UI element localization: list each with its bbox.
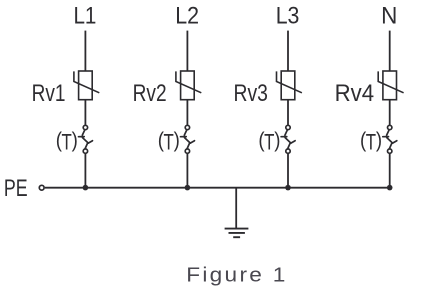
svg-text:T: T xyxy=(264,130,274,155)
wire PE bus to ground xyxy=(235,188,237,229)
PE open terminal circle xyxy=(39,185,44,190)
PE bus wire xyxy=(45,187,390,189)
label (T) for T1 xyxy=(56,129,78,155)
varistor Rv3 xyxy=(277,71,302,100)
wire disconnect T1 to PE bus xyxy=(84,153,86,187)
junction dot N/PE xyxy=(387,185,393,191)
svg-text:L2: L2 xyxy=(175,3,199,29)
svg-text:Rv1: Rv1 xyxy=(32,80,66,106)
wire disconnect T4 to PE bus xyxy=(389,153,391,187)
wire Rv3 to disconnect T3 xyxy=(287,100,289,126)
svg-text:T: T xyxy=(164,130,174,155)
varistor Rv4 xyxy=(378,71,403,100)
wire N to Rv4 xyxy=(389,31,391,71)
wire Rv4 to disconnect T4 xyxy=(389,100,391,126)
svg-text:): ) xyxy=(72,129,78,152)
label (T) for T2 xyxy=(158,129,180,155)
ground symbol xyxy=(225,229,249,238)
junction dot L3/PE xyxy=(285,185,291,191)
wire Rv1 to disconnect T1 xyxy=(84,100,86,126)
varistor Rv2 xyxy=(176,71,201,100)
svg-text:Rv2: Rv2 xyxy=(133,80,167,106)
thermal disconnect T1 xyxy=(79,125,93,153)
thermal disconnect T3 xyxy=(281,125,295,153)
label (T) for T3 xyxy=(258,129,280,155)
svg-text:L3: L3 xyxy=(276,3,300,29)
thermal disconnect T4 xyxy=(383,125,397,153)
wire disconnect T2 to PE bus xyxy=(186,153,188,187)
svg-text:T: T xyxy=(62,130,72,155)
wire L1 to Rv1 xyxy=(84,31,86,71)
wire disconnect T3 to PE bus xyxy=(287,153,289,187)
thermal disconnect T2 xyxy=(181,125,195,153)
svg-text:L1: L1 xyxy=(73,2,96,29)
svg-text:): ) xyxy=(376,129,382,152)
svg-text:N: N xyxy=(381,2,397,29)
junction dot L1/PE xyxy=(83,185,89,191)
junction dot L2/PE xyxy=(185,185,191,191)
svg-text:): ) xyxy=(274,129,280,152)
wire Rv2 to disconnect T2 xyxy=(186,100,188,126)
svg-text:): ) xyxy=(174,129,180,152)
label (T) for T4 xyxy=(360,129,382,155)
varistor Rv1 xyxy=(74,71,99,100)
svg-text:Rv4: Rv4 xyxy=(335,79,375,106)
svg-text:Rv3: Rv3 xyxy=(233,79,267,106)
svg-text:T: T xyxy=(366,130,376,155)
wire L2 to Rv2 xyxy=(186,31,188,71)
wire L3 to Rv3 xyxy=(287,31,289,71)
svg-text:Figure 1: Figure 1 xyxy=(186,263,287,287)
svg-text:PE: PE xyxy=(4,176,28,202)
